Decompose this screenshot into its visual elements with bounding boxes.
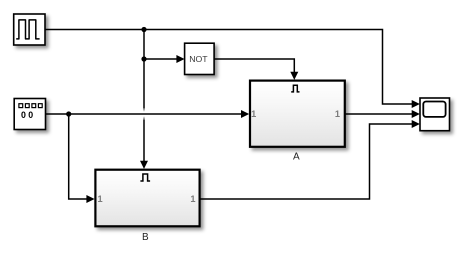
pulse generator block	[14, 14, 45, 45]
svg-text:1: 1	[190, 194, 195, 204]
block name B	[142, 232, 149, 243]
subsystem A block	[250, 81, 345, 147]
four square cells icon	[19, 104, 42, 108]
svg-text:1: 1	[335, 109, 340, 119]
arrowhead into B input 1	[86, 195, 94, 203]
port label 1 (A input)	[251, 109, 256, 119]
port label 1 (A output)	[335, 109, 340, 119]
value text 0 0	[21, 110, 33, 120]
svg-text:0 0: 0 0	[21, 110, 33, 120]
port label 1 (B input)	[98, 194, 103, 204]
arrowhead into A trigger port	[290, 72, 298, 80]
square-wave icon inside pulse generator	[16, 20, 39, 39]
arrowhead into scope input 1	[412, 100, 420, 108]
junction on pulse wire	[141, 27, 146, 32]
svg-text:1: 1	[251, 109, 256, 119]
scope screen	[423, 102, 445, 117]
NOT logical operator block	[185, 43, 215, 74]
svg-text:B: B	[142, 232, 149, 243]
junction on source wire	[66, 111, 71, 116]
NOT label	[189, 54, 208, 64]
scope block	[420, 98, 450, 131]
wire: pulse generator output to scope input 1 (via top run)	[45, 30, 413, 105]
wire: NOT output to subsystem A trigger port	[214, 59, 294, 73]
arrowhead into scope input 2	[412, 110, 420, 118]
block name A	[293, 152, 300, 163]
subsystem B block	[95, 170, 199, 227]
svg-text:NOT: NOT	[189, 54, 208, 64]
wire: branch to NOT block input	[144, 58, 178, 60]
signal source block (0 0)	[14, 99, 45, 130]
arrowhead into scope input 3	[412, 120, 420, 128]
svg-text:1: 1	[98, 194, 103, 204]
junction on vertical branch at NOT tap	[141, 56, 146, 61]
arrowhead into NOT input	[176, 55, 184, 63]
wire: subsystem B output to scope input 3	[200, 124, 413, 199]
arrowhead into A input 1	[241, 110, 249, 118]
port label 1 (B output)	[190, 194, 195, 204]
svg-text:A: A	[293, 152, 300, 163]
wire: branch down to subsystem B input 1	[69, 114, 89, 199]
trigger glyph on A	[291, 85, 299, 92]
wire: subsystem A output to scope input 2	[346, 113, 414, 115]
arrowhead into B trigger port	[140, 161, 148, 169]
wire: branch down from pulse line to subsystem B trigger port	[143, 30, 145, 163]
trigger glyph on B	[140, 174, 150, 181]
wire: signal source block to subsystem A input 1	[46, 113, 243, 115]
